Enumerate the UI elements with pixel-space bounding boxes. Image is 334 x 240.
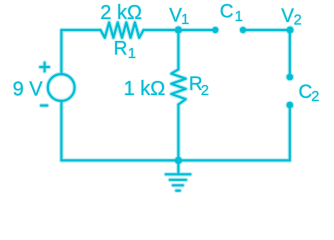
- svg-text:2: 2: [311, 89, 319, 105]
- svg-text:R: R: [114, 39, 128, 60]
- svg-text:2: 2: [294, 12, 302, 28]
- svg-text:2: 2: [201, 83, 209, 99]
- svg-text:V: V: [281, 6, 294, 27]
- svg-text:9 V: 9 V: [13, 79, 44, 101]
- svg-text:C: C: [299, 82, 313, 103]
- svg-text:1 kΩ: 1 kΩ: [124, 78, 166, 100]
- svg-text:1: 1: [128, 46, 136, 62]
- svg-text:1: 1: [235, 9, 243, 25]
- svg-text:C: C: [220, 1, 234, 22]
- svg-text:1: 1: [181, 12, 189, 28]
- svg-text:2 kΩ: 2 kΩ: [100, 2, 142, 24]
